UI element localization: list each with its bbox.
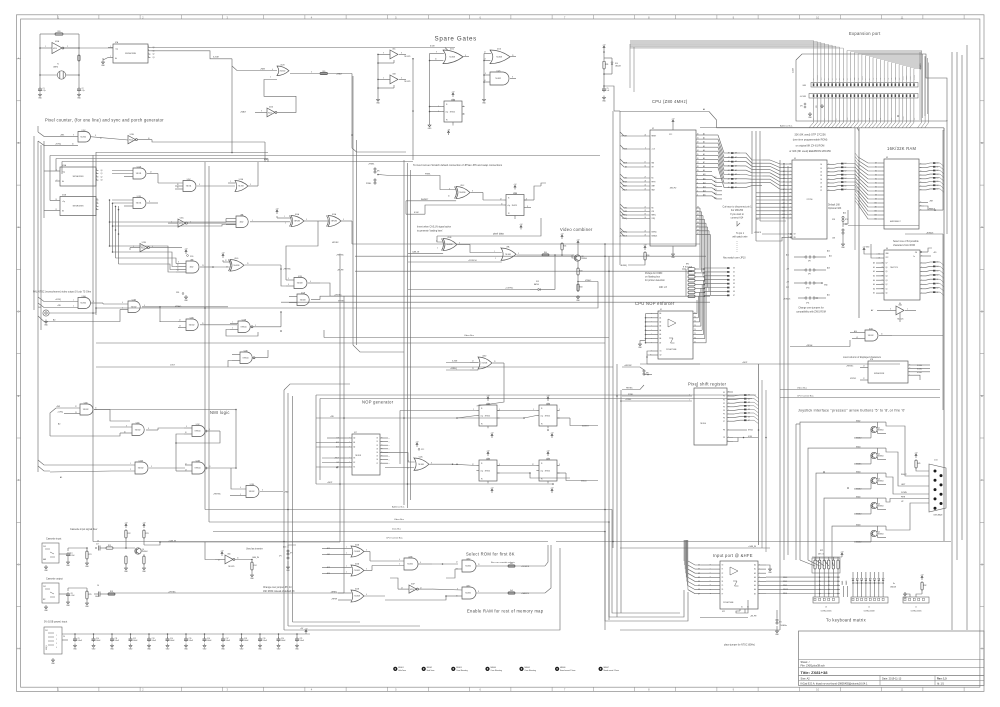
wire A14 jumper to ram — [848, 224, 919, 226]
capacitor C18 100nF — [241, 634, 243, 638]
svg-text:Case Mounting: Case Mounting — [525, 669, 536, 672]
svg-text:A11: A11 — [786, 254, 789, 257]
svg-text:Hole 5mm: Hole 5mm — [427, 670, 435, 672]
wire END line — [152, 140, 265, 142]
svg-text:100nF: 100nF — [226, 640, 231, 642]
capacitor C20 100nF — [278, 634, 280, 638]
svg-text:CPU Control Bus: CPU Control Bus — [797, 394, 815, 397]
kb junction dots — [819, 576, 821, 578]
wire U16B out to right — [159, 307, 161, 322]
svg-text:4.7uF: 4.7uF — [71, 595, 75, 597]
svg-text:O1: O1 — [376, 441, 378, 443]
svg-text:CE: CE — [794, 234, 796, 236]
svg-text:O4: O4 — [376, 452, 378, 454]
nand U23B 74LS32 — [404, 558, 418, 570]
svg-text:74LS32: 74LS32 — [189, 324, 195, 326]
svg-text:E1: E1 — [354, 467, 356, 469]
svg-text:10K x 8: 10K x 8 — [659, 287, 668, 289]
capacitor C2 4.7p — [77, 88, 81, 90]
svg-text:13: 13 — [179, 326, 181, 328]
svg-text:74LS125: 74LS125 — [404, 56, 410, 58]
svg-text:C9: C9 — [78, 638, 80, 640]
wire NMI input bend — [232, 66, 255, 71]
wire WAIT down right — [352, 74, 406, 153]
cpu busrq pullup R30 — [644, 248, 646, 250]
decoder outputs — [380, 437, 385, 439]
transistor Q2 2N3904 — [871, 452, 877, 458]
or-gate U11C 74LS08 — [443, 50, 463, 64]
connector J1 CONN_01X05 right — [903, 597, 929, 603]
vertical tap wires from counter outputs — [109, 199, 111, 201]
wire nop ring top — [316, 394, 756, 396]
svg-text:Q8: Q8 — [581, 256, 583, 258]
svg-text:+IORQ: +IORQ — [57, 412, 63, 414]
svg-text:WR: WR — [652, 211, 654, 213]
or-gate U24D 74LS08 wreq — [478, 357, 492, 369]
svg-text:74HC86: 74HC86 — [459, 192, 465, 194]
counter U7A SN74HC393N — [113, 44, 148, 63]
counter U14A SN74HC393N — [60, 167, 96, 186]
svg-text:74HC86: 74HC86 — [233, 265, 239, 267]
svg-text:Spare Gates: Spare Gates — [435, 36, 477, 43]
svg-text:Q6: Q6 — [886, 267, 888, 269]
resistor R44 to gnd — [577, 284, 579, 291]
wire pixel data loop — [541, 183, 546, 186]
svg-text:PIXEL: PIXEL — [366, 183, 371, 185]
svg-text:M1: M1 — [652, 178, 654, 180]
svg-text:GND: GND — [854, 77, 856, 80]
svg-text:HC14: HC14 — [268, 112, 272, 114]
svg-text:Q1: Q1 — [878, 428, 880, 430]
latch U4 74HCT574 — [884, 250, 920, 300]
svg-text:Cassette input: Cassette input — [46, 538, 62, 541]
cpu right address pins — [696, 134, 712, 136]
svg-text:Pullups for IORD: Pullups for IORD — [645, 272, 663, 275]
svg-text:+CLK: +CLK — [652, 149, 656, 151]
svg-text:74LS32: 74LS32 — [83, 409, 89, 411]
svg-text:A11: A11 — [827, 294, 830, 297]
wire y152 return — [96, 152, 268, 154]
svg-text:U8B: U8B — [190, 259, 193, 261]
latch OE and clock — [920, 251, 928, 253]
svg-text:Q1: Q1 — [886, 288, 888, 290]
svg-text:DB9_MALE: DB9_MALE — [934, 514, 944, 517]
svg-text:Select one of 64 possible: Select one of 64 possible — [893, 240, 919, 243]
svg-text:Hole 5mm: Hole 5mm — [398, 670, 406, 672]
svg-text:HC14: HC14 — [129, 139, 133, 141]
svg-text:CONN_01X05: CONN_01X05 — [911, 611, 922, 613]
svg-text:P27: P27 — [756, 219, 759, 221]
svg-text:for printer detection: for printer detection — [645, 279, 666, 282]
wire ram pads to vertical bus — [936, 163, 944, 167]
svg-text:100nF: 100nF — [115, 640, 120, 642]
svg-text:74LS08: 74LS08 — [354, 596, 360, 598]
svg-text:4002: 4002 — [190, 267, 194, 269]
wire U16B q out — [524, 199, 534, 201]
svg-text:B: B — [18, 141, 20, 145]
svg-text:74LS32: 74LS32 — [138, 468, 144, 470]
expansion pin rows — [813, 41, 815, 83]
svg-text:U17: U17 — [354, 432, 357, 434]
svg-text:D4: D4 — [697, 222, 699, 224]
svg-text:4n7: 4n7 — [96, 544, 99, 546]
wires into U8A from taps — [110, 219, 227, 223]
svg-text:SH/LD: SH/LD — [748, 430, 754, 432]
svg-text:To invert screen Scratch defau: To invert screen Scratch default connect… — [413, 164, 503, 167]
and-gate U11B 74LS08 — [294, 278, 307, 289]
or-gate U24C 74LS08 — [414, 458, 429, 471]
wire oscillator feedback loop — [40, 33, 55, 35]
connector C05 video RCA — [43, 310, 49, 316]
net label INVERT ff — [557, 417, 570, 419]
or-gate U12B 74LS32 — [277, 66, 289, 76]
wire rom pads to vertical bus — [844, 164, 859, 168]
flip-flop U29A — [539, 405, 557, 426]
svg-text:+RD: +RD — [57, 305, 61, 307]
svg-text:2N3904: 2N3904 — [878, 534, 884, 536]
svg-text:74LS08: 74LS08 — [481, 363, 487, 365]
capacitor C8 4.7uF — [66, 593, 70, 595]
svg-text:Ca: Ca — [913, 256, 915, 258]
wire nmi cross — [176, 431, 220, 443]
svg-text:O5: O5 — [376, 456, 378, 458]
svg-text:74HC86: 74HC86 — [331, 221, 337, 223]
power rail 5V — [62, 633, 310, 635]
svg-text:100nF: 100nF — [133, 640, 138, 642]
inverter U25B — [140, 244, 148, 252]
wire counter cascade — [44, 170, 55, 172]
svg-text:Q3: Q3 — [101, 180, 103, 182]
nand U16D 74LS32 — [80, 404, 93, 415]
svg-text:U4: U4 — [886, 248, 888, 250]
svg-text:Input port @ &HFE: Input port @ &HFE — [713, 553, 753, 558]
svg-text:Select ROM for first 8K: Select ROM for first 8K — [466, 552, 515, 557]
svg-text:Rv3: Rv3 — [510, 590, 513, 592]
svg-text:12: 12 — [75, 406, 77, 408]
and-gate U15C 74LS11 — [183, 181, 196, 192]
svg-text:2N3904: 2N3904 — [878, 430, 884, 432]
svg-text:11: 11 — [177, 187, 179, 189]
svg-text:Video Bus: Video Bus — [464, 335, 475, 337]
svg-text:Y7: Y7 — [694, 342, 696, 344]
svg-text:JP9: JP9 — [808, 274, 811, 276]
ground video divider — [577, 295, 579, 297]
nand U16B 74LS32 — [128, 301, 140, 313]
capacitor C17 100nF — [222, 634, 224, 638]
svg-text:74LS08: 74LS08 — [505, 254, 511, 256]
wire joystick leftbus — [795, 424, 797, 560]
wire U11D/U12C common left — [483, 54, 485, 98]
svg-text:74LS32: 74LS32 — [80, 136, 86, 138]
svg-text:RIGHT: RIGHT — [901, 474, 907, 476]
svg-text:C17: C17 — [226, 638, 229, 640]
ic U22 CD74HCT640E — [720, 561, 758, 609]
svg-text:MK006: MK006 — [560, 667, 565, 669]
svg-text:R23: R23 — [146, 533, 149, 535]
svg-text:A11: A11 — [829, 255, 832, 258]
nand U23D 74LS32 — [462, 560, 476, 572]
svg-text:VCC: VCC — [886, 257, 889, 259]
svg-text:CAS_IN: CAS_IN — [252, 556, 259, 559]
resistor R18 — [108, 593, 115, 595]
svg-text:74LS11: 74LS11 — [136, 173, 142, 175]
gnd input port pin2 — [766, 565, 770, 567]
mounting hole MK004 — [485, 667, 489, 671]
svg-text:4.7p: 4.7p — [82, 90, 85, 92]
svg-text:Q0: Q0 — [101, 170, 103, 172]
latch left pins — [876, 262, 884, 264]
svg-text:Video combiner: Video combiner — [560, 227, 593, 232]
svg-text:Video Bus: Video Bus — [394, 519, 405, 521]
vertical address corridor left of rom — [755, 131, 757, 241]
svg-text:or 32K (8K used) EEEPROM 28C25: or 32K (8K used) EEEPROM 28C256 — [789, 150, 831, 153]
svg-text:U5: U5 — [794, 158, 796, 160]
or-gate U12A 74LS32 — [235, 181, 248, 192]
wire right side verticals — [942, 130, 944, 210]
svg-text:4.7p: 4.7p — [43, 90, 46, 92]
svg-text:Optional 32K: Optional 32K — [828, 207, 842, 210]
svg-text:+HSYNC: +HSYNC — [213, 494, 221, 496]
wire to counter — [63, 47, 113, 49]
svg-text:Y1: Y1 — [57, 64, 59, 66]
svg-text:D5: D5 — [697, 226, 699, 228]
wire 6.5M end stub — [445, 48, 448, 51]
inverter U11D halt — [267, 108, 275, 117]
svg-text:on floating bus: on floating bus — [645, 276, 661, 279]
svg-text:+PIXEL: +PIXEL — [368, 164, 374, 166]
svg-text:74LS32: 74LS32 — [238, 186, 244, 188]
svg-text:32K (8K used) OTP 27C256: 32K (8K used) OTP 27C256 — [794, 134, 826, 137]
capacitor C11 100nF — [111, 634, 113, 638]
rom left pins — [786, 163, 792, 165]
svg-text:4002: 4002 — [240, 221, 244, 223]
svg-text:3.25M: 3.25M — [213, 57, 219, 59]
mounting hole MK001 — [393, 667, 397, 671]
wire bus bends bottom right — [612, 510, 680, 614]
svg-text:100nF: 100nF — [96, 640, 101, 642]
svg-text:R20: R20 — [322, 71, 325, 73]
svg-text:Y7: Y7 — [722, 593, 724, 595]
svg-text:D2: D2 — [820, 172, 822, 174]
wire left ring bottom — [293, 621, 361, 623]
svg-text:+M1: +M1 — [913, 117, 915, 120]
nand U23C 74LS32 — [462, 587, 476, 599]
svg-text:74HC74: 74HC74 — [485, 471, 491, 473]
svg-text:100nF: 100nF — [170, 640, 175, 642]
svg-text:+WAIT: +WAIT — [336, 72, 343, 75]
svg-text:JP11: JP11 — [806, 303, 809, 305]
svg-text:Q6: Q6 — [142, 549, 144, 551]
resistor R19 — [106, 547, 113, 549]
svg-text:R30: R30 — [647, 255, 650, 257]
svg-text:74LS08: 74LS08 — [354, 551, 360, 553]
svg-text:Q3: Q3 — [153, 57, 155, 59]
wire 3.25M down to CPU area — [231, 59, 233, 153]
svg-text:R41: R41 — [564, 246, 567, 248]
svg-text:Sheet: /: Sheet: / — [801, 660, 810, 664]
svg-text:A: A — [981, 57, 983, 61]
wire U10A out down to U11B — [286, 221, 318, 280]
ram U3 HM62256BLP-7 — [884, 159, 919, 229]
ground spare right — [483, 98, 485, 100]
svg-text:74HC74: 74HC74 — [485, 416, 491, 418]
svg-text:G2: G2 — [660, 355, 662, 357]
vcc symbol nop — [416, 445, 418, 447]
svg-text:100nF: 100nF — [207, 640, 212, 642]
flip-flop U16B video 74HC74 — [506, 195, 524, 216]
svg-text:C7: C7 — [71, 553, 73, 555]
svg-text:Y2: Y2 — [694, 321, 696, 323]
svg-text:nOUT: nOUT — [170, 365, 176, 367]
xor U10B porch 74HC86 — [230, 260, 244, 272]
wire left long vertical — [92, 155, 94, 542]
capacitor C16 100nF — [204, 634, 206, 638]
or-gate U19D 74LS32 — [186, 319, 198, 331]
svg-text:+RFSH: +RFSH — [861, 76, 863, 80]
svg-text:U25F: U25F — [411, 583, 415, 585]
svg-text:A: A — [18, 57, 20, 61]
svg-text:CONN_01X08: CONN_01X08 — [864, 611, 875, 613]
svg-text:U15M: U15M — [139, 460, 144, 462]
svg-text:Y5: Y5 — [722, 585, 724, 587]
cpu left pin labels — [628, 135, 650, 137]
svg-text:12: 12 — [420, 587, 422, 589]
wire RCA to video net — [49, 312, 96, 314]
svg-text:Y0: Y0 — [694, 312, 696, 314]
svg-text:C20: C20 — [281, 638, 284, 640]
svg-text:U13B: U13B — [196, 460, 200, 462]
svg-text:10: 10 — [72, 144, 74, 146]
svg-text:RD: RD — [652, 208, 654, 210]
svg-text:74LS32: 74LS32 — [868, 335, 874, 337]
svg-text:Address Bus: Address Bus — [392, 505, 405, 508]
svg-text:PE: PE — [723, 430, 725, 432]
svg-text:(one time programmable ROM): (one time programmable ROM) — [793, 139, 828, 142]
wire cas_in vertical up — [339, 254, 341, 542]
inverter U25A — [52, 43, 62, 54]
svg-text:+BUSRQ: +BUSRQ — [620, 265, 628, 267]
svg-text:compatibility with ZX81 ROM: compatibility with ZX81 ROM — [796, 311, 826, 314]
svg-text:+IORQ: +IORQ — [55, 143, 61, 145]
or-gate U9A 74LS08 — [501, 248, 516, 261]
wire cas_in loop — [205, 542, 215, 560]
svg-text:1N4148: 1N4148 — [615, 66, 621, 68]
and-gate U12C 74LS32 — [490, 72, 509, 85]
svg-text:A0: A0 — [58, 423, 60, 426]
svg-text:12: 12 — [225, 260, 227, 262]
svg-text:100nF: 100nF — [95, 596, 100, 598]
nand U13D 74HC00 out — [240, 352, 252, 364]
nand U13A 74HC00 — [238, 321, 250, 333]
nand U13C 74HC00 — [192, 426, 205, 437]
expansion wire fan to address bus — [813, 98, 815, 123]
svg-text:Q2: Q2 — [101, 176, 103, 178]
svg-text:74HC74: 74HC74 — [545, 471, 551, 473]
svg-text:VIDEO: VIDEO — [175, 306, 182, 308]
capacitor C21 100nF — [296, 634, 298, 638]
svg-text:100nF: 100nF — [281, 640, 286, 642]
svg-text:11: 11 — [177, 268, 179, 270]
resistor R32 kb — [921, 578, 923, 580]
svg-text:1N4148: 1N4148 — [890, 587, 896, 589]
nand U8B 4002 — [186, 261, 199, 273]
resistor R41 pullup — [561, 237, 563, 239]
flip-flop U18A 74HC74 spare — [444, 101, 462, 122]
svg-text:U15B: U15B — [137, 196, 141, 198]
expansion outer wire box — [629, 44, 631, 88]
svg-text:A0: A0 — [53, 318, 55, 321]
wire nOUT long — [96, 366, 613, 368]
svg-text:MK005: MK005 — [525, 667, 530, 669]
transistor Q3 2N3904 — [871, 477, 877, 483]
vertical data bus right of ram — [943, 128, 945, 541]
svg-text:27C256: 27C256 — [807, 199, 813, 201]
wire data vertical right — [779, 160, 781, 630]
svg-text:10: 10 — [448, 195, 450, 197]
svg-text:C6: C6 — [97, 585, 99, 587]
cpu A10-A15 wires right — [711, 175, 713, 177]
connector J2 CONN_01X08 right — [851, 597, 888, 603]
svg-text:74LS32: 74LS32 — [249, 491, 255, 493]
svg-text:GND: GND — [847, 117, 849, 120]
svg-text:Board mount 2.5mm: Board mount 2.5mm — [560, 669, 576, 672]
resistor Rv3 — [508, 592, 515, 594]
svg-text:+IM1: +IM1 — [60, 134, 64, 136]
svg-text:MIC: MIC — [43, 599, 46, 601]
svg-text:12: 12 — [456, 562, 458, 564]
svg-text:CPU (Z80 4MHz): CPU (Z80 4MHz) — [652, 99, 688, 104]
svg-text:Change over jumper JP1 for: Change over jumper JP1 for — [263, 586, 292, 589]
expansion right wires down — [919, 52, 921, 120]
svg-text:with patch wire: with patch wire — [732, 236, 748, 239]
svg-text:C2: C2 — [82, 88, 84, 90]
xor U10C invert 74HC86 — [456, 187, 470, 199]
transistor Q4 2N3904 — [871, 502, 877, 508]
svg-text:U1: U1 — [660, 309, 662, 311]
svg-text:U24E: U24E — [130, 134, 134, 136]
title block — [799, 631, 985, 685]
svg-text:Y6: Y6 — [694, 337, 696, 339]
svg-text:2N3904: 2N3904 — [878, 481, 884, 483]
svg-text:D13: D13 — [536, 281, 539, 283]
svg-text:Cut trace to disconnect pin 1: Cut trace to disconnect pin 1 — [722, 206, 752, 209]
keyboard matrix verticals — [814, 573, 816, 597]
cap row first cap C4 — [62, 639, 68, 641]
wire verticals left nmi ring — [283, 390, 285, 630]
svg-text:C5: C5 — [607, 88, 609, 90]
or-gate U24B 74LS08 — [351, 590, 364, 602]
svg-text:74LS08: 74LS08 — [297, 283, 303, 285]
svg-text:Rv2: Rv2 — [510, 563, 513, 565]
svg-text:CD74HCT640E: CD74HCT640E — [723, 602, 733, 604]
svg-text:R43: R43 — [580, 271, 583, 273]
svg-text:CD74HCT540E: CD74HCT540E — [666, 349, 676, 351]
wire +5 to CPU — [604, 86, 614, 111]
svg-text:CO4: CO4 — [934, 460, 938, 462]
svg-text:CPU Control Bus: CPU Control Bus — [386, 536, 404, 539]
svg-text:R32: R32 — [924, 585, 927, 587]
svg-text:16K ROM instead of default 8K: 16K ROM instead of default 8K — [263, 590, 295, 593]
mounting hole MK002 — [422, 667, 426, 671]
svg-text:count column of displayed char: count column of displayed characters — [843, 356, 882, 359]
svg-text:G: G — [981, 562, 983, 566]
svg-text:D6: D6 — [697, 229, 699, 231]
svg-text:CONN_01X05: CONN_01X05 — [821, 611, 832, 613]
svg-text:100nF: 100nF — [244, 640, 249, 642]
svg-text:O0: O0 — [376, 438, 378, 440]
svg-text:E: E — [981, 394, 983, 398]
svg-text:If you want to: If you want to — [730, 213, 744, 216]
